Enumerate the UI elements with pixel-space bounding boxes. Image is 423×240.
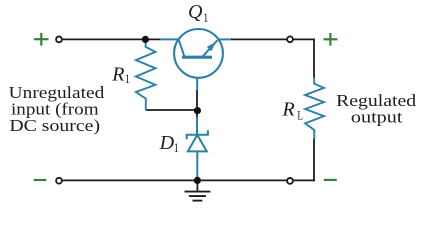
svg-text:Q: Q <box>188 1 203 23</box>
svg-text:DC source): DC source) <box>9 116 100 135</box>
svg-text:D: D <box>159 132 175 154</box>
svg-text:L: L <box>297 109 303 123</box>
svg-text:R: R <box>111 63 124 85</box>
svg-text:1: 1 <box>125 72 130 86</box>
svg-text:R: R <box>282 98 295 120</box>
svg-text:1: 1 <box>174 141 179 155</box>
svg-text:1: 1 <box>203 11 208 25</box>
svg-text:output: output <box>351 108 403 127</box>
